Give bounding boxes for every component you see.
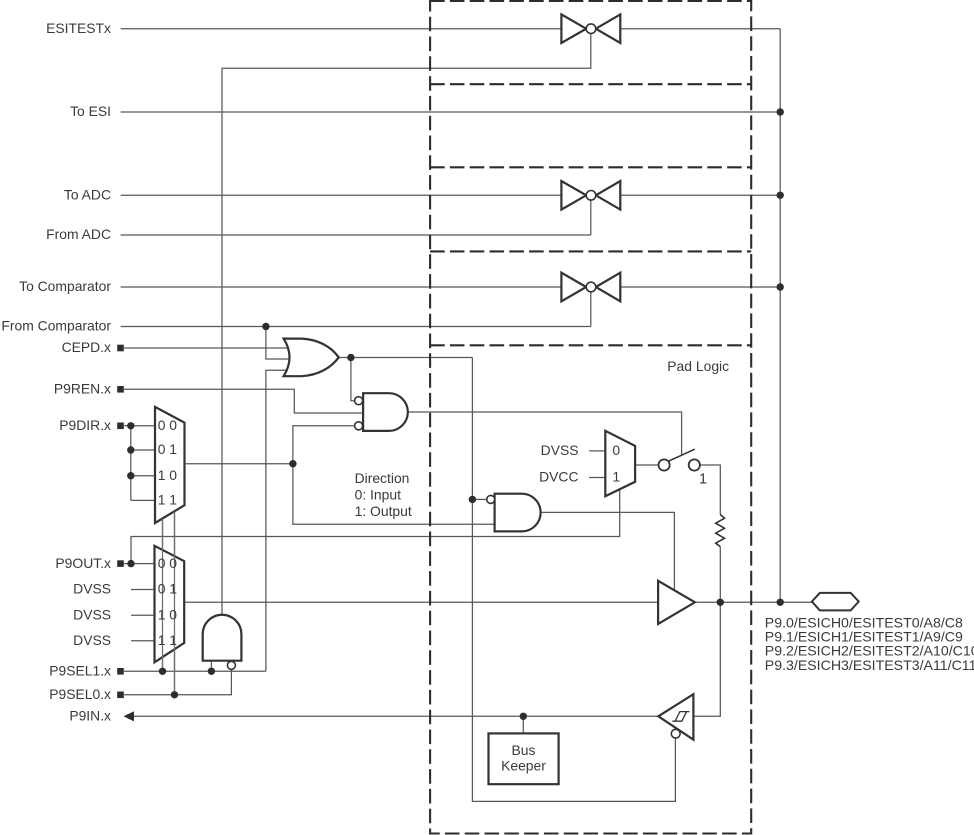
wire TG1 output to pad column	[620, 28, 780, 30]
svg-text:P9SEL0.x: P9SEL0.x	[49, 686, 111, 702]
wire OR output long vertical to schmitt enable	[472, 358, 675, 802]
bus keeper block	[489, 733, 559, 784]
wire P9SEL0 select vertical	[174, 511, 176, 694]
pad pin hexagon	[812, 593, 859, 611]
wire TG1 control from AND3 output	[222, 33, 591, 614]
node P9SEL0 / select vertical	[171, 691, 178, 698]
svg-text:P9DIR.x: P9DIR.x	[59, 417, 111, 433]
wire ESITESTx lead	[121, 28, 562, 30]
wire P9DIR.x lead	[124, 425, 155, 427]
node P9SEL1 / AND3 input	[208, 668, 215, 675]
wire resistor bottom	[719, 547, 721, 603]
svg-text:1: 1	[699, 472, 707, 488]
module divider ESI section bottom	[430, 166, 751, 168]
and-gate U4 (P9SEL1 and not P9SEL0, points up)	[203, 615, 242, 670]
node resistor / pad line	[717, 599, 724, 606]
svg-text:P9OUT.x: P9OUT.x	[55, 555, 111, 571]
wire From Comparator	[121, 326, 591, 328]
wire P9SEL1 branch to OR input 3	[266, 370, 290, 671]
wire AND1 output to switch lever	[408, 412, 682, 455]
svg-text:CEPD.x: CEPD.x	[62, 339, 111, 355]
wire P9IN.x from schmitt output	[134, 715, 659, 717]
node OR output branch	[347, 354, 354, 361]
node P9IN / bus keeper	[520, 713, 527, 720]
DASHED MODULE BOXES	[430, 1, 751, 834]
svg-text:0 0: 0 0	[158, 417, 178, 433]
svg-text:From ADC: From ADC	[46, 226, 111, 242]
wire P9DIR mux row 01 stub	[131, 449, 155, 451]
input square P9DIR.x	[117, 423, 124, 430]
wire MUX2 output to driver input	[184, 601, 658, 603]
node pad column / To ESI	[777, 108, 784, 115]
node P9DIR row01	[127, 446, 134, 453]
wire To ADC lead	[121, 194, 562, 196]
wire TG2 output	[620, 194, 780, 196]
svg-text:ESITESTx: ESITESTx	[46, 20, 111, 36]
svg-text:DVSS: DVSS	[73, 632, 111, 648]
and-gate U2 (REN pull logic, two bubbled inputs)	[355, 393, 408, 431]
svg-text:1 0: 1 0	[158, 467, 178, 483]
svg-text:P9SEL1.x: P9SEL1.x	[49, 663, 111, 679]
wire DVSS stub row 11	[131, 640, 155, 642]
wire DVSS stub row 01	[131, 589, 155, 591]
svg-text:To ADC: To ADC	[64, 187, 111, 203]
schmitt trigger input buffer U6	[658, 694, 693, 740]
output driver buffer U5	[658, 581, 695, 624]
wire switch output to resistor	[700, 465, 720, 515]
wire To ESI	[121, 111, 781, 113]
output arrow P9IN.x	[124, 711, 134, 721]
wire P9REN.x to AND1 middle input	[124, 389, 363, 413]
wire OR output to AND1 top bubble	[351, 358, 355, 401]
input square P9SEL1.x	[117, 668, 124, 675]
node OR long vertical / AND2 input	[469, 496, 476, 503]
svg-text:0: 0	[612, 442, 620, 458]
wire To Comparator lead	[121, 286, 562, 288]
svg-text:0 0: 0 0	[158, 555, 178, 571]
svg-text:Direction: Direction	[355, 470, 410, 486]
wire Direction to AND1 bottom bubble	[293, 426, 355, 464]
wire AND3 left input stub	[210, 661, 212, 672]
svg-text:Bus: Bus	[512, 742, 536, 758]
wire TG2 control	[590, 200, 592, 235]
wire driver output to pad	[695, 601, 812, 603]
node P9DIR row10	[127, 472, 134, 479]
wire From ADC	[121, 234, 591, 236]
wire P9DIR.x branch vertical	[130, 426, 132, 501]
and-gate U3 (pull enable, one bubbled input)	[487, 494, 541, 532]
wire bus keeper stub	[522, 716, 524, 733]
transmission gate TG3 (Comparator)	[561, 273, 620, 302]
node From Comparator branch	[262, 323, 269, 330]
transmission gate TG1 (ESITESTx)	[561, 14, 620, 43]
wire junction to AND2 top bubble	[472, 498, 486, 500]
svg-text:Keeper: Keeper	[501, 757, 546, 773]
wire P9SEL1 select vertical over MUX2	[162, 519, 164, 672]
wire CEPD.x lead to OR input 1	[124, 347, 290, 349]
wire Direction to AND2 bottom input	[293, 464, 495, 525]
svg-text:0 1: 0 1	[158, 441, 178, 457]
mux MUX3 (DVSS/DVCC pull select)	[605, 431, 635, 496]
svg-text:Pad Logic: Pad Logic	[667, 358, 729, 374]
or-gate U1 (CEPD / From Comparator / P9SEL1)	[284, 339, 339, 377]
wire P9SEL1.x line	[124, 670, 266, 672]
wire MUX1 direction output	[185, 463, 293, 465]
node P9DIR row00	[127, 422, 134, 429]
wire schmitt input from pad	[693, 602, 720, 716]
wire P9OUT.x lead	[124, 563, 155, 565]
resistor R1 (pull resistor)	[716, 515, 725, 547]
svg-text:DVSS: DVSS	[73, 607, 111, 623]
wire DVSS stub MUX3	[589, 450, 605, 452]
svg-text:1 1: 1 1	[158, 492, 178, 508]
mux MUX2 (P9OUT output select)	[155, 546, 185, 663]
switch S1 contacts	[659, 459, 670, 470]
node Direction branch	[289, 460, 296, 467]
wire P9SEL1 select vertical	[162, 519, 164, 672]
wire TG3 control	[590, 292, 592, 327]
svg-text:P9IN.x: P9IN.x	[69, 708, 111, 724]
module box outer dashed frame	[430, 1, 751, 834]
svg-text:1 1: 1 1	[158, 632, 178, 648]
node pad column / pad line	[777, 599, 784, 606]
mux MUX1 (P9DIR direction select)	[155, 407, 185, 523]
input square P9SEL0.x	[117, 692, 124, 699]
svg-text:0: Input: 0: Input	[355, 487, 401, 503]
wire TG3 output	[620, 286, 780, 288]
node pad column / To Comparator	[777, 283, 784, 290]
wire P9SEL0.x line to AND3 bubble	[124, 669, 231, 694]
node P9SEL1 / select vertical	[159, 668, 166, 675]
wires drawn above mux fills	[163, 511, 175, 694]
svg-text:0 1: 0 1	[158, 581, 178, 597]
svg-text:From Comparator: From Comparator	[1, 318, 111, 334]
wire P9DIR mux row 10 stub	[131, 475, 155, 477]
wire AND2 output to driver enable	[541, 512, 675, 590]
wire P9OUT branch to MUX3 select	[131, 490, 620, 564]
svg-text:DVSS: DVSS	[541, 442, 579, 458]
module divider ADC section bottom	[430, 250, 751, 252]
module divider ESI test section bottom	[430, 83, 751, 85]
svg-text:To ESI: To ESI	[70, 103, 111, 119]
wire pad vertical column	[779, 29, 781, 603]
svg-text:1: 1	[612, 469, 620, 485]
svg-text:1 0: 1 0	[158, 607, 178, 623]
transmission gate TG2 (ADC)	[561, 181, 620, 210]
wire From Comparator branch to OR input 2	[266, 327, 290, 360]
input square P9REN.x	[117, 386, 124, 393]
wire OR output	[339, 357, 472, 359]
svg-text:P9.3/ESICH3/ESITEST3/A11/C11: P9.3/ESICH3/ESITEST3/A11/C11	[765, 657, 974, 673]
wire P9SEL0 select vertical over MUX2	[174, 511, 176, 694]
wire P9DIR mux row 11 stub	[131, 499, 155, 501]
node pad column / To ADC	[777, 192, 784, 199]
input square CEPD.x	[117, 345, 124, 352]
input square P9OUT.x	[117, 560, 124, 567]
wire DVCC stub MUX3	[589, 477, 605, 479]
svg-text:DVCC: DVCC	[539, 469, 578, 485]
svg-text:1: Output: 1: Output	[355, 503, 412, 519]
switch S1 lever	[669, 449, 695, 461]
wire MUX3 output to switch	[635, 464, 659, 466]
svg-text:To Comparator: To Comparator	[19, 278, 111, 294]
svg-text:P9REN.x: P9REN.x	[54, 381, 111, 397]
wire DVSS stub row 10	[131, 614, 155, 616]
node P9OUT branch	[127, 560, 134, 567]
svg-text:DVSS: DVSS	[73, 581, 111, 597]
module divider comparator section bottom / pad logic top	[430, 344, 751, 346]
